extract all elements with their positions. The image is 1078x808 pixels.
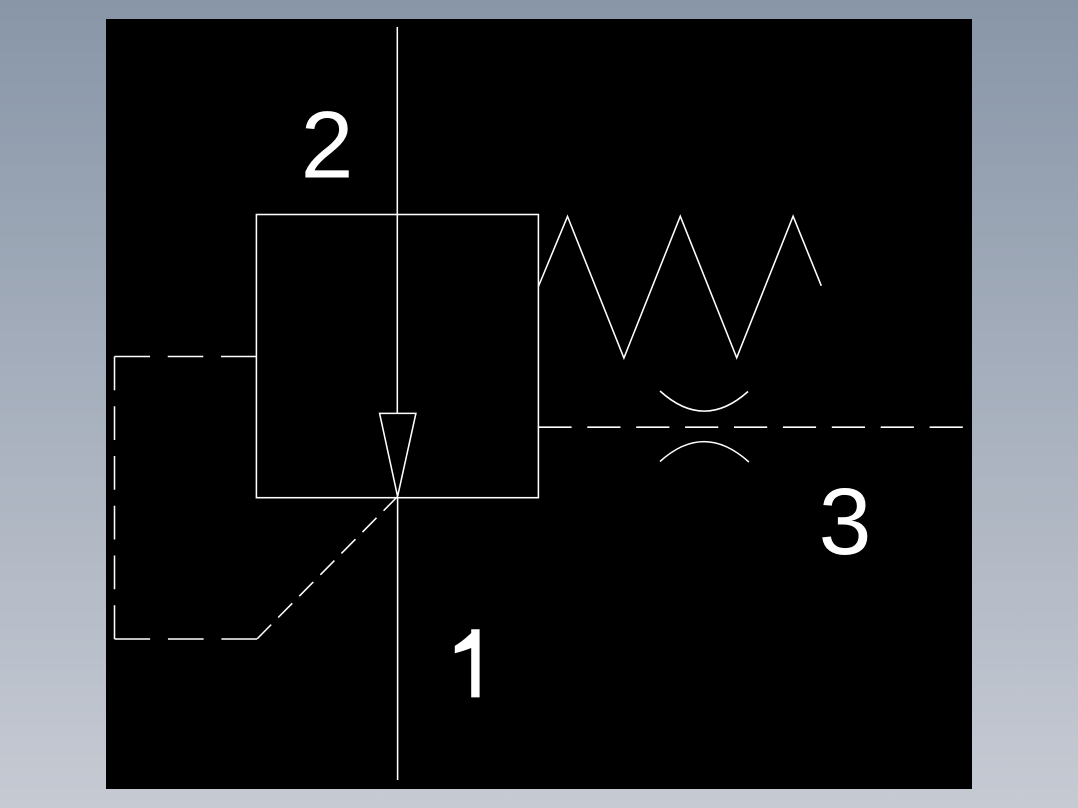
wire vertical port line lower (valve to port 1) — [397, 497, 399, 780]
throttle lower arc — [660, 442, 749, 462]
wire vertical port line upper (port 2 to valve arrow) — [396, 27, 398, 413]
spring — [538, 216, 821, 358]
flow arrow (valve poppet) — [380, 413, 416, 496]
pilot dashed top wire — [115, 356, 257, 358]
valve body box — [256, 215, 538, 498]
svg-text:2: 2 — [301, 93, 354, 199]
pilot dashed diagonal wire — [257, 497, 398, 640]
svg-text:3: 3 — [819, 469, 872, 575]
pilot dashed left wire — [114, 357, 116, 640]
black CAD canvas — [106, 19, 972, 789]
label port 1 (arial-style numeral one) — [455, 629, 480, 697]
pilot dashed bottom wire — [115, 638, 258, 640]
throttle upper arc — [660, 391, 748, 411]
pilot line dashed (node 3 line) — [538, 426, 963, 428]
